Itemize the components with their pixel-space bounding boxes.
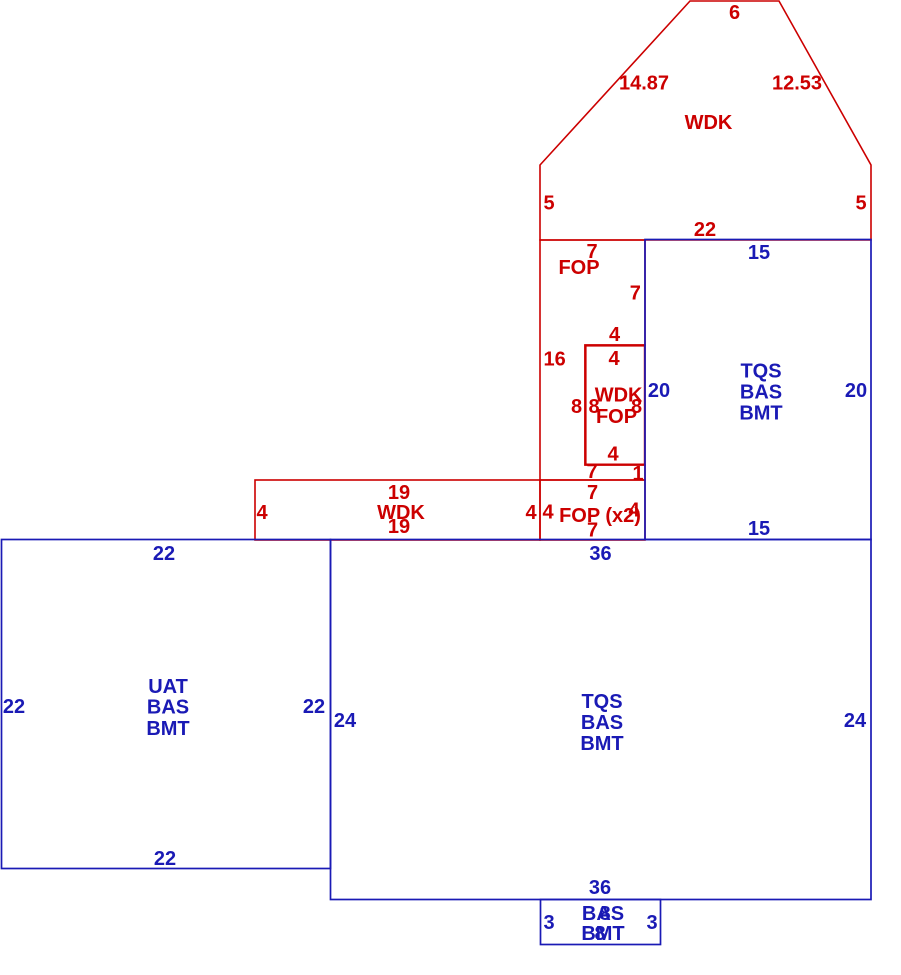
svg-text:BMT: BMT <box>581 923 624 945</box>
svg-text:WDK: WDK <box>685 112 733 134</box>
svg-text:FOP: FOP <box>558 257 599 279</box>
svg-text:4: 4 <box>628 500 640 522</box>
svg-text:24: 24 <box>844 710 867 732</box>
svg-text:19: 19 <box>388 482 410 504</box>
svg-text:TQS: TQS <box>581 691 622 713</box>
svg-text:BAS: BAS <box>582 903 624 925</box>
svg-text:3: 3 <box>543 912 554 934</box>
svg-text:22: 22 <box>303 696 325 718</box>
svg-text:4: 4 <box>608 348 620 370</box>
svg-text:1: 1 <box>632 463 643 485</box>
svg-text:15: 15 <box>748 518 770 540</box>
svg-text:5: 5 <box>855 193 866 215</box>
svg-text:FOP: FOP <box>596 406 637 428</box>
svg-text:36: 36 <box>589 543 611 565</box>
svg-text:TQS: TQS <box>740 361 781 383</box>
svg-text:7: 7 <box>630 283 641 305</box>
svg-text:19: 19 <box>388 516 410 538</box>
svg-text:36: 36 <box>589 877 611 899</box>
svg-text:4: 4 <box>609 324 621 346</box>
svg-text:12.53: 12.53 <box>772 73 822 95</box>
svg-text:UAT: UAT <box>148 676 188 698</box>
svg-text:24: 24 <box>334 710 357 732</box>
svg-text:4: 4 <box>607 444 619 466</box>
svg-text:7: 7 <box>587 520 598 542</box>
svg-text:22: 22 <box>154 848 176 870</box>
svg-text:14.87: 14.87 <box>619 73 669 95</box>
svg-text:3: 3 <box>646 912 657 934</box>
svg-text:7: 7 <box>586 461 597 483</box>
svg-text:5: 5 <box>543 193 554 215</box>
svg-text:BAS: BAS <box>740 382 782 404</box>
svg-text:20: 20 <box>845 380 867 402</box>
svg-text:6: 6 <box>729 2 740 24</box>
svg-text:8: 8 <box>571 396 582 418</box>
svg-text:BMT: BMT <box>580 733 623 755</box>
svg-text:BAS: BAS <box>581 712 623 734</box>
svg-text:22: 22 <box>3 696 25 718</box>
svg-text:15: 15 <box>748 242 770 264</box>
svg-text:BAS: BAS <box>147 697 189 719</box>
svg-text:7: 7 <box>587 482 598 504</box>
svg-text:4: 4 <box>525 502 537 524</box>
svg-text:WDK: WDK <box>595 385 643 407</box>
svg-text:4: 4 <box>542 502 554 524</box>
svg-text:22: 22 <box>694 219 716 241</box>
svg-text:BMT: BMT <box>146 718 189 740</box>
svg-text:4: 4 <box>256 502 268 524</box>
svg-text:BMT: BMT <box>739 403 782 425</box>
svg-text:22: 22 <box>153 543 175 565</box>
svg-text:20: 20 <box>648 380 670 402</box>
svg-text:16: 16 <box>543 348 565 370</box>
